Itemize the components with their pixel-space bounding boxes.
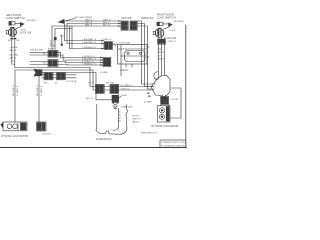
wire row y70 bbox=[15, 69, 93, 71]
left wire code labels bbox=[8, 40, 20, 66]
dash wire labels bbox=[85, 19, 111, 27]
svg-text:LT DOOR LOCK MOTOR: LT DOOR LOCK MOTOR bbox=[1, 135, 28, 138]
left door lock switch label bbox=[6, 13, 25, 20]
svg-text:40 WAY: 40 WAY bbox=[144, 101, 152, 104]
svg-text:LT GRN .8: LT GRN .8 bbox=[17, 85, 19, 96]
lower bus labels bbox=[88, 82, 133, 90]
ladder horizontals bottom group bbox=[61, 57, 104, 59]
svg-text:SEE PG: SEE PG bbox=[133, 119, 141, 121]
svg-text:LOCK SWITCH: LOCK SWITCH bbox=[6, 16, 25, 20]
svg-text:W QUARTER WINDOW: W QUARTER WINDOW bbox=[161, 144, 185, 147]
svg-text:VIO .8: VIO .8 bbox=[88, 82, 95, 84]
ground square bbox=[112, 95, 119, 102]
dash wires horizontals bbox=[65, 20, 122, 22]
svg-text:BLK 2.0: BLK 2.0 bbox=[86, 98, 94, 100]
svg-text:BLK/WHT: BLK/WHT bbox=[174, 21, 184, 23]
BLK wire code label bbox=[60, 36, 65, 38]
svg-text:GRN .8: GRN .8 bbox=[157, 58, 165, 60]
left drop wire 2 bbox=[38, 73, 40, 123]
svg-text:DK GRN .8: DK GRN .8 bbox=[13, 84, 15, 96]
svg-text:DASH SW: DASH SW bbox=[121, 17, 133, 20]
svg-text:3 ORN/BLK .8: 3 ORN/BLK .8 bbox=[82, 47, 97, 49]
fuse block outline bbox=[96, 105, 128, 135]
connector pair B bbox=[48, 60, 58, 67]
svg-text:POWER DOOR LOCKS: POWER DOOR LOCKS bbox=[161, 142, 185, 144]
lower bus connector 1 bbox=[96, 84, 105, 93]
svg-text:BLK/WHT: BLK/WHT bbox=[27, 20, 37, 22]
ladder labels bbox=[82, 39, 97, 66]
center drop 1 bbox=[90, 68, 154, 87]
svg-text:REMOVED B 77: REMOVED B 77 bbox=[141, 132, 158, 134]
svg-text:GRN .8: GRN .8 bbox=[157, 52, 165, 54]
svg-text:DK GRN .8: DK GRN .8 bbox=[37, 84, 39, 96]
svg-text:BLK: BLK bbox=[60, 36, 65, 38]
circuit breaker bbox=[113, 44, 117, 46]
relay out wires bbox=[147, 46, 149, 48]
left switch body bbox=[9, 22, 20, 25]
wire from left connector (left) bbox=[11, 36, 13, 63]
right door lock switch labels bbox=[157, 12, 176, 19]
center drop 3 / ground wire bbox=[96, 73, 112, 100]
block B wires bbox=[30, 61, 66, 63]
a/c harness drop wires bbox=[52, 25, 70, 27]
wire from left connector (right) bbox=[14, 36, 16, 67]
stub wire with terminal bbox=[61, 35, 63, 44]
svg-text:LOCK M: LOCK M bbox=[42, 133, 51, 135]
svg-text:LT GRN: LT GRN bbox=[10, 47, 18, 49]
dash out wires to right drops bbox=[137, 21, 155, 84]
connector pair D bbox=[57, 73, 66, 80]
a/c arrow blob bbox=[58, 19, 65, 24]
svg-text:DK GRN 2.0: DK GRN 2.0 bbox=[121, 85, 134, 87]
dash connector block 1 bbox=[121, 21, 128, 30]
svg-text:BLK/YEL: BLK/YEL bbox=[106, 82, 116, 84]
svg-text:BLK .8: BLK .8 bbox=[10, 50, 17, 52]
svg-text:1 BLK/WHT .8: 1 BLK/WHT .8 bbox=[82, 39, 97, 41]
relay lower connector bbox=[103, 58, 111, 67]
svg-text:ORN 1.0: ORN 1.0 bbox=[168, 41, 177, 43]
right lever wire bbox=[164, 27, 170, 30]
border right bbox=[185, 25, 187, 148]
note text block bbox=[133, 116, 141, 124]
svg-text:ORN 1.0: ORN 1.0 bbox=[103, 39, 112, 41]
svg-text:LOCK SWITCH: LOCK SWITCH bbox=[157, 15, 176, 19]
jog verticals bbox=[60, 52, 62, 57]
title block bbox=[160, 140, 186, 148]
dash connector block 2 bbox=[130, 21, 137, 30]
right lower connector bbox=[161, 97, 169, 105]
svg-text:BLK .8: BLK .8 bbox=[10, 58, 17, 60]
ladder verticals (dash drops) bbox=[64, 21, 66, 41]
wire row y72.5 bbox=[39, 72, 96, 74]
svg-text:P/LKS 30A: P/LKS 30A bbox=[119, 42, 130, 45]
svg-text:ORN .8: ORN .8 bbox=[50, 39, 52, 47]
right bus verticals bbox=[158, 37, 160, 78]
trapezoid connector bbox=[151, 76, 170, 97]
ground symbol bbox=[112, 103, 118, 109]
bottom-left connector bbox=[37, 122, 47, 131]
right switch lever bbox=[169, 23, 173, 26]
wires through C/D bbox=[42, 74, 76, 76]
svg-text:LT GRN .8: LT GRN .8 bbox=[41, 85, 43, 96]
svg-text:FUSE BLOCK: FUSE BLOCK bbox=[96, 138, 112, 141]
right bus inline blob bbox=[157, 39, 165, 43]
svg-text:FUSE: FUSE bbox=[121, 95, 127, 97]
svg-text:NOTE: NOTE bbox=[133, 116, 140, 118]
svg-text:LOCK: LOCK bbox=[170, 30, 176, 32]
tick marks on right bus bbox=[158, 43, 166, 45]
svg-text:COR M: COR M bbox=[171, 99, 178, 101]
svg-text:RELAY: RELAY bbox=[121, 69, 129, 72]
right switch body bbox=[157, 22, 169, 25]
svg-text:HTR A/C SEE: HTR A/C SEE bbox=[30, 49, 44, 52]
svg-text:7 TAN/BLK .8: 7 TAN/BLK .8 bbox=[82, 63, 96, 66]
svg-text:ORN 2.0: ORN 2.0 bbox=[121, 88, 130, 90]
pigtail bbox=[154, 72, 159, 80]
connector pair A bbox=[48, 50, 58, 57]
left drop wire 1 bbox=[14, 70, 16, 122]
border bottom bbox=[0, 147, 186, 149]
4M 4F labels bbox=[44, 81, 77, 84]
right bus rotated labels bbox=[157, 49, 165, 60]
block A wires bbox=[30, 51, 61, 53]
lower bus connector 2 bbox=[110, 84, 119, 93]
svg-text:P/WDW SW: P/WDW SW bbox=[141, 18, 154, 20]
bottom-left door motor bbox=[1, 122, 27, 131]
connector pair C bbox=[44, 73, 53, 80]
svg-text:RT DOOR LOCK MOTOR: RT DOOR LOCK MOTOR bbox=[152, 126, 179, 128]
relay feed connector bbox=[104, 42, 112, 50]
ladder horizontals top group bbox=[65, 40, 105, 42]
left round connector bbox=[6, 27, 16, 36]
wire arrowheads into connectors bbox=[101, 40, 103, 42]
arrowheads into dash switch connector bbox=[118, 20, 120, 22]
connector labels H2 H3 4M 4F bbox=[43, 49, 55, 65]
far right wire bbox=[171, 88, 182, 118]
svg-text:BLU .8: BLU .8 bbox=[103, 25, 110, 27]
center drop 2 bbox=[93, 70, 154, 90]
svg-text:5 DK: 5 DK bbox=[157, 49, 162, 51]
svg-text:LOCK SW: LOCK SW bbox=[20, 31, 32, 34]
svg-text:8A-10: 8A-10 bbox=[133, 121, 140, 124]
left lever wire bbox=[16, 26, 21, 29]
arrow blob connector bbox=[34, 69, 42, 76]
right round connector bbox=[153, 28, 164, 38]
right door motor bbox=[158, 106, 171, 123]
svg-text:(GROUND): (GROUND) bbox=[122, 106, 133, 108]
splice blob on A/C wire bbox=[54, 37, 57, 40]
svg-text:40 WAY: 40 WAY bbox=[100, 71, 108, 74]
rotated wire labels on drops bbox=[13, 84, 43, 96]
wire row y64 from left bbox=[15, 67, 90, 69]
svg-text:(LOOK IN): (LOOK IN) bbox=[67, 81, 78, 83]
svg-text:BRN .8: BRN .8 bbox=[85, 25, 93, 27]
fuse block teeth bbox=[113, 108, 119, 130]
arrowheads into 40-way connector bbox=[148, 92, 151, 94]
trapezoid out wires bbox=[162, 95, 164, 97]
svg-text:2 GRY/BLK .8: 2 GRY/BLK .8 bbox=[82, 42, 96, 44]
relay box bbox=[118, 45, 148, 68]
svg-text:4M: 4M bbox=[44, 83, 47, 85]
left switch lever bbox=[20, 22, 24, 25]
svg-text:DK GRN: DK GRN bbox=[10, 55, 19, 57]
